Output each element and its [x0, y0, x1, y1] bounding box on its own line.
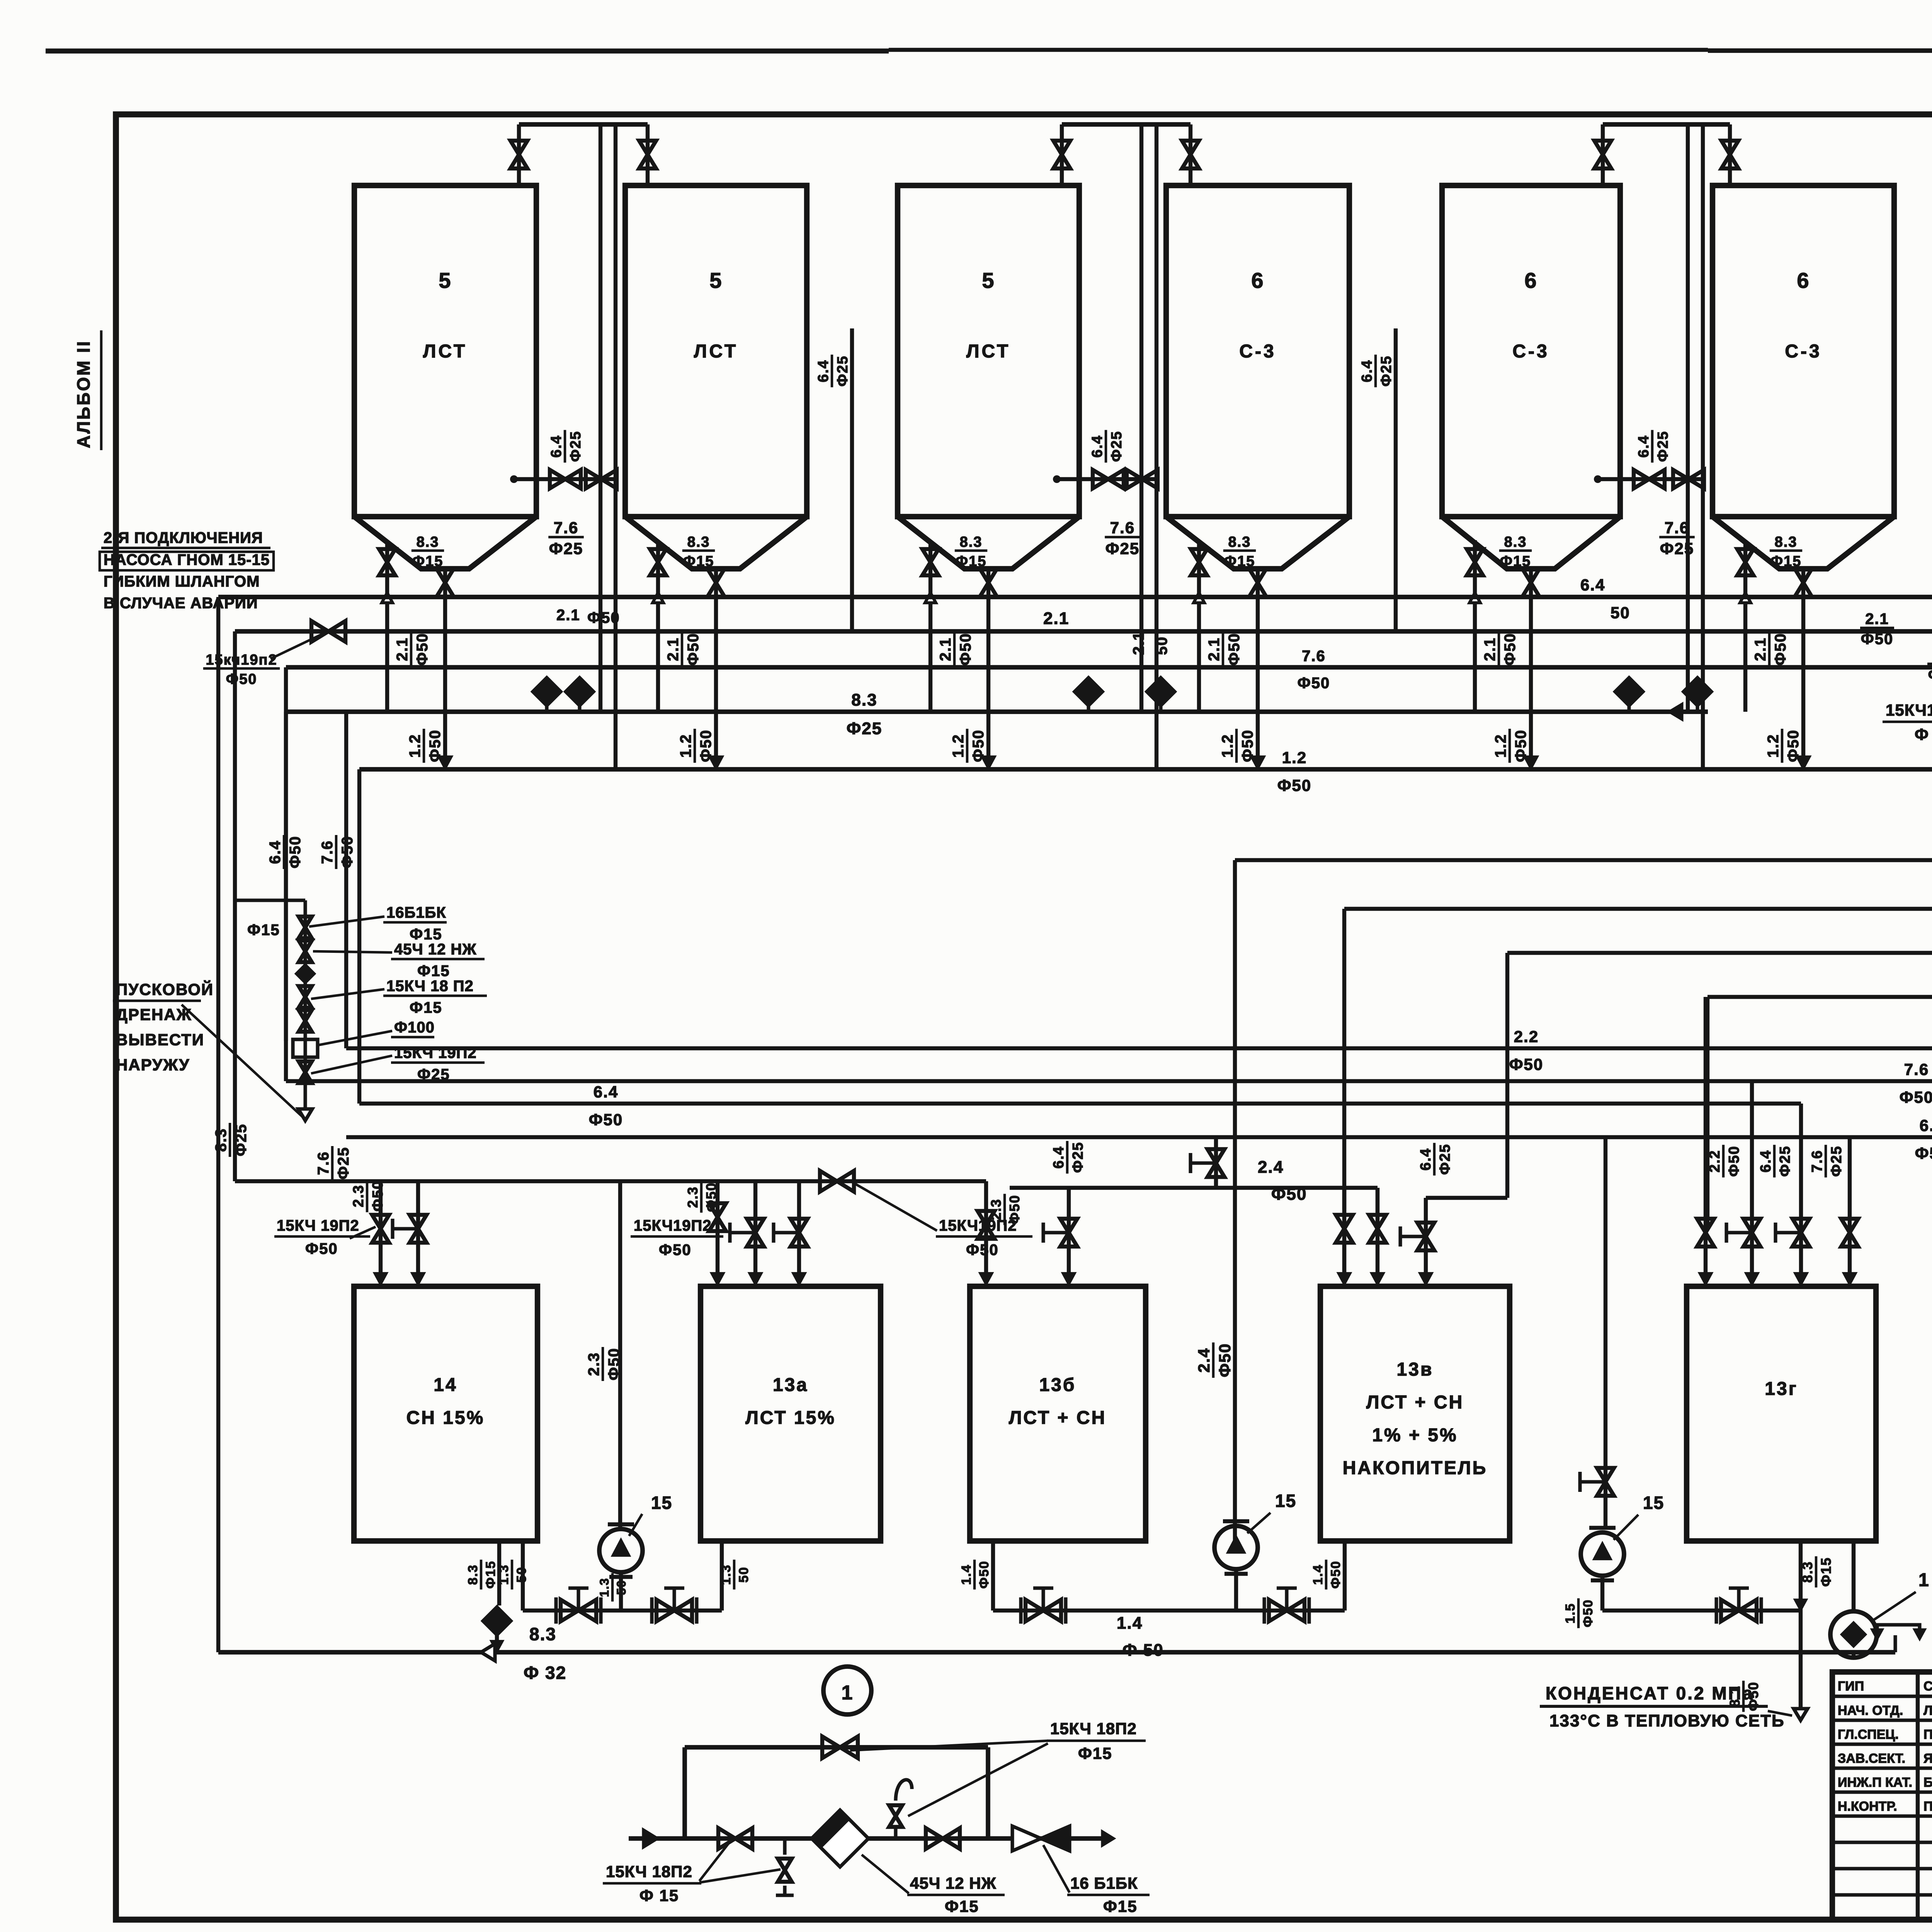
svg-text:Ф15: Ф15	[247, 922, 280, 939]
svg-text:2.3: 2.3	[685, 1186, 701, 1208]
svg-text:ЛСТ 15%: ЛСТ 15%	[745, 1408, 836, 1428]
svg-text:1.3: 1.3	[497, 1564, 511, 1585]
svg-text:Ф15: Ф15	[956, 553, 987, 570]
svg-text:7.6: 7.6	[1110, 519, 1135, 537]
svg-text:Ф25: Ф25	[1660, 539, 1694, 558]
svg-text:ПУСКОВОЙ: ПУСКОВОЙ	[116, 980, 214, 998]
svg-text:Ф25: Ф25	[1828, 1146, 1845, 1177]
svg-text:НАРУЖУ: НАРУЖУ	[116, 1056, 190, 1074]
svg-text:1.3: 1.3	[597, 1578, 611, 1597]
svg-text:50: 50	[1153, 636, 1170, 655]
svg-text:5: 5	[709, 268, 722, 293]
svg-text:2.1: 2.1	[937, 637, 954, 661]
svg-text:Ф50: Ф50	[1861, 631, 1894, 648]
svg-text:Ф50: Ф50	[1277, 776, 1312, 794]
svg-text:Ф50: Ф50	[977, 1561, 992, 1589]
svg-text:Ф50: Ф50	[1007, 1195, 1022, 1225]
svg-text:Ф 50: Ф 50	[1915, 725, 1932, 743]
svg-text:ИНЖ.П КАТ.: ИНЖ.П КАТ.	[1838, 1775, 1912, 1790]
svg-text:6: 6	[1524, 268, 1537, 293]
svg-text:Ф15: Ф15	[1078, 1744, 1112, 1762]
svg-text:7.6: 7.6	[1904, 1060, 1929, 1078]
svg-text:6.4: 6.4	[1920, 1116, 1932, 1134]
svg-text:ЯКОВИЧ: ЯКОВИЧ	[1923, 1751, 1932, 1766]
svg-text:6: 6	[1251, 268, 1264, 293]
svg-text:АЛЬБОМ II: АЛЬБОМ II	[73, 340, 94, 448]
svg-text:6.4: 6.4	[267, 840, 284, 864]
svg-text:Ф25: Ф25	[835, 355, 851, 387]
svg-text:Ф15: Ф15	[1224, 553, 1255, 570]
svg-text:Ф50: Ф50	[1239, 730, 1256, 762]
svg-text:1% + 5%: 1% + 5%	[1372, 1425, 1458, 1446]
svg-text:8.3: 8.3	[960, 534, 983, 550]
svg-text:16Б1БК: 16Б1БК	[386, 904, 446, 921]
svg-text:13б: 13б	[1039, 1375, 1076, 1395]
svg-text:Ф15: Ф15	[1818, 1557, 1834, 1587]
svg-text:8.3: 8.3	[1799, 1561, 1815, 1583]
svg-text:Ф 15: Ф 15	[639, 1886, 679, 1905]
svg-text:Ф50: Ф50	[1226, 633, 1243, 666]
svg-text:СОЛОВЬЕВ: СОЛОВЬЕВ	[1923, 1679, 1932, 1694]
svg-text:ВЫВЕСТИ: ВЫВЕСТИ	[116, 1031, 204, 1049]
svg-text:Ф50: Ф50	[697, 730, 714, 762]
svg-text:2.1: 2.1	[1206, 637, 1223, 661]
svg-text:6.4: 6.4	[815, 360, 832, 383]
svg-text:7.6: 7.6	[554, 519, 578, 537]
svg-text:2.2: 2.2	[1707, 1150, 1723, 1173]
svg-text:13а: 13а	[773, 1375, 808, 1395]
svg-text:Ф15: Ф15	[1770, 553, 1802, 570]
svg-text:2.4: 2.4	[1195, 1348, 1213, 1372]
svg-text:Ф50: Ф50	[339, 836, 356, 869]
svg-text:1.4: 1.4	[1117, 1614, 1143, 1633]
svg-text:8.3: 8.3	[1504, 534, 1527, 550]
svg-text:ПЕТРОВА: ПЕТРОВА	[1923, 1799, 1932, 1814]
svg-text:Ф50: Ф50	[370, 1180, 386, 1212]
svg-text:15КЧ 18П2: 15КЧ 18П2	[1050, 1719, 1137, 1738]
svg-text:Ф25: Ф25	[847, 719, 883, 738]
svg-text:50: 50	[1611, 604, 1630, 622]
svg-text:2.1: 2.1	[556, 607, 580, 624]
svg-text:8.3: 8.3	[466, 1564, 480, 1585]
svg-text:Ф15: Ф15	[945, 1897, 979, 1915]
svg-text:Ф100: Ф100	[394, 1019, 435, 1036]
svg-text:Ф15: Ф15	[483, 1561, 498, 1589]
svg-text:С-3: С-3	[1785, 341, 1821, 362]
svg-text:Ф25: Ф25	[1777, 1146, 1793, 1177]
svg-text:ГИБКИМ ШЛАНГОМ: ГИБКИМ ШЛАНГОМ	[104, 573, 260, 590]
svg-text:2.1: 2.1	[1752, 637, 1769, 661]
svg-text:ЛСТ: ЛСТ	[966, 341, 1010, 362]
svg-text:15: 15	[651, 1493, 672, 1513]
svg-text:2.3: 2.3	[988, 1199, 1004, 1220]
svg-text:Ф50: Ф50	[305, 1240, 338, 1257]
svg-text:Ф50: Ф50	[589, 1111, 623, 1129]
svg-text:Ф50: Ф50	[966, 1242, 999, 1259]
svg-text:ЛСТ: ЛСТ	[423, 341, 467, 362]
svg-text:2.1: 2.1	[665, 637, 682, 661]
svg-text:15: 15	[1643, 1493, 1664, 1513]
svg-text:45Ч 12 НЖ: 45Ч 12 НЖ	[394, 941, 476, 958]
svg-text:133°С В ТЕПЛОВУЮ СЕТЬ: 133°С В ТЕПЛОВУЮ СЕТЬ	[1549, 1711, 1785, 1730]
svg-text:Ф25: Ф25	[233, 1124, 250, 1156]
svg-text:Ф50: Ф50	[226, 671, 257, 687]
svg-text:Ф50: Ф50	[1915, 1144, 1932, 1162]
svg-text:14: 14	[434, 1375, 457, 1395]
svg-text:ЛАВРЕНТЬЕВ: ЛАВРЕНТЬЕВ	[1923, 1703, 1932, 1718]
svg-text:6.4: 6.4	[1636, 435, 1652, 458]
svg-text:2.3: 2.3	[585, 1352, 602, 1376]
svg-text:6.4: 6.4	[1418, 1148, 1434, 1171]
svg-text:1.2: 1.2	[1765, 734, 1782, 758]
svg-text:1.5: 1.5	[1563, 1603, 1578, 1623]
svg-text:1.2: 1.2	[1219, 734, 1236, 758]
svg-text:6.4: 6.4	[594, 1083, 618, 1101]
svg-text:Ф50: Ф50	[1928, 667, 1932, 684]
svg-text:2.1: 2.1	[1865, 611, 1889, 628]
svg-text:Ф25: Ф25	[1378, 355, 1395, 387]
svg-text:ЛСТ + СН: ЛСТ + СН	[1366, 1392, 1464, 1413]
svg-text:15: 15	[1275, 1491, 1296, 1511]
svg-text:Ф50: Ф50	[703, 1182, 719, 1212]
svg-text:6.4: 6.4	[1359, 360, 1375, 383]
svg-text:Ф50: Ф50	[1581, 1599, 1595, 1628]
svg-text:6.4: 6.4	[1051, 1146, 1067, 1169]
svg-text:50: 50	[736, 1566, 751, 1583]
svg-text:15КЧ19П2: 15КЧ19П2	[1886, 701, 1932, 719]
svg-text:Ф50: Ф50	[970, 730, 987, 762]
svg-text:ЛСТ: ЛСТ	[694, 341, 738, 362]
svg-text:2.3: 2.3	[350, 1185, 367, 1207]
svg-text:С-3: С-3	[1239, 341, 1276, 362]
svg-text:Ф15: Ф15	[412, 553, 444, 570]
svg-text:Ф15: Ф15	[417, 963, 450, 980]
svg-text:2.1: 2.1	[394, 637, 411, 661]
svg-text:Ф50: Ф50	[1509, 1055, 1544, 1073]
svg-text:Ф25: Ф25	[549, 539, 583, 558]
svg-text:8.3: 8.3	[417, 534, 439, 550]
svg-text:ДРЕНАЖ: ДРЕНАЖ	[116, 1005, 192, 1024]
svg-text:ПЕТРОВА: ПЕТРОВА	[1923, 1727, 1932, 1742]
svg-text:5: 5	[982, 268, 995, 293]
svg-text:5: 5	[439, 268, 451, 293]
svg-text:6: 6	[1797, 268, 1810, 293]
svg-text:Ф50: Ф50	[659, 1242, 692, 1259]
svg-text:ГЛ.СПЕЦ.: ГЛ.СПЕЦ.	[1838, 1727, 1899, 1742]
svg-text:Ф15: Ф15	[683, 553, 714, 570]
svg-text:Ф25: Ф25	[1437, 1144, 1453, 1175]
svg-text:Н.КОНТР.: Н.КОНТР.	[1838, 1799, 1897, 1814]
svg-text:Ф50: Ф50	[1502, 633, 1519, 666]
svg-text:50: 50	[514, 1566, 529, 1583]
svg-text:Ф15: Ф15	[1500, 553, 1531, 570]
svg-text:Ф50: Ф50	[957, 633, 974, 666]
svg-text:Ф 32: Ф 32	[524, 1663, 566, 1683]
svg-text:16 Б1БК: 16 Б1БК	[1070, 1874, 1138, 1892]
svg-text:6.4: 6.4	[548, 435, 565, 458]
svg-text:КОНДЕНСАТ 0.2 МПа: КОНДЕНСАТ 0.2 МПа	[1546, 1683, 1754, 1703]
svg-text:Ф50: Ф50	[414, 633, 431, 666]
svg-text:15кч19п2: 15кч19п2	[206, 652, 277, 668]
svg-text:1.2: 1.2	[1492, 734, 1509, 758]
svg-text:Ф25: Ф25	[1109, 431, 1125, 462]
svg-text:Ф25: Ф25	[1655, 431, 1671, 462]
svg-text:50: 50	[614, 1580, 628, 1595]
svg-text:7.6: 7.6	[319, 840, 336, 864]
svg-text:1: 1	[842, 1682, 854, 1704]
svg-text:Ф50: Ф50	[685, 633, 702, 666]
svg-text:Ф50: Ф50	[1785, 730, 1802, 762]
svg-text:2-Я ПОДКЛЮЧЕНИЯ: 2-Я ПОДКЛЮЧЕНИЯ	[104, 529, 263, 546]
svg-text:8.3: 8.3	[529, 1624, 556, 1644]
svg-text:НАКОПИТЕЛЬ: НАКОПИТЕЛЬ	[1343, 1458, 1487, 1478]
svg-text:Ф50: Ф50	[1216, 1343, 1234, 1378]
svg-text:7.6: 7.6	[1302, 648, 1326, 665]
svg-text:8.3: 8.3	[687, 534, 710, 550]
svg-text:ЛСТ + СН: ЛСТ + СН	[1009, 1408, 1107, 1428]
svg-text:Ф50: Ф50	[1900, 1088, 1932, 1106]
svg-text:Ф50: Ф50	[287, 836, 304, 869]
svg-text:Ф50: Ф50	[1512, 730, 1529, 762]
svg-text:45Ч 12 НЖ: 45Ч 12 НЖ	[910, 1874, 997, 1892]
svg-text:15КЧ19П2: 15КЧ19П2	[634, 1217, 712, 1234]
svg-text:15КЧ 19П2: 15КЧ 19П2	[277, 1217, 359, 1234]
svg-text:2.1: 2.1	[1481, 637, 1498, 661]
svg-text:Ф50: Ф50	[587, 609, 620, 626]
svg-text:Ф25: Ф25	[335, 1147, 352, 1180]
svg-text:Ф50: Ф50	[1271, 1185, 1307, 1204]
svg-text:13г: 13г	[1765, 1379, 1798, 1399]
svg-text:1: 1	[1918, 1570, 1930, 1590]
svg-text:2.1: 2.1	[1043, 609, 1069, 628]
svg-text:6.4: 6.4	[1089, 435, 1105, 458]
svg-text:Ф50: Ф50	[605, 1348, 622, 1381]
svg-text:8.3: 8.3	[851, 690, 877, 709]
svg-text:2.2: 2.2	[1514, 1027, 1539, 1046]
svg-text:8.3: 8.3	[1775, 534, 1798, 550]
svg-text:2.4: 2.4	[1258, 1158, 1284, 1177]
svg-text:7.6: 7.6	[1809, 1150, 1825, 1173]
svg-text:С-3: С-3	[1512, 341, 1549, 362]
svg-text:1.2: 1.2	[677, 734, 694, 758]
svg-text:6.4: 6.4	[1580, 576, 1605, 594]
svg-text:15КЧ 18 П2: 15КЧ 18 П2	[386, 978, 474, 995]
svg-text:Ф50: Ф50	[427, 730, 444, 762]
svg-text:Ф25: Ф25	[568, 431, 584, 462]
svg-text:1.2: 1.2	[950, 734, 967, 758]
svg-text:Ф15: Ф15	[410, 999, 442, 1016]
svg-text:13в: 13в	[1397, 1359, 1434, 1380]
svg-text:Ф15: Ф15	[1103, 1897, 1138, 1915]
svg-text:Ф15: Ф15	[410, 926, 442, 943]
svg-text:6.4: 6.4	[1758, 1150, 1774, 1173]
svg-text:8.3: 8.3	[1228, 534, 1251, 550]
svg-text:БОЙКОВА: БОЙКОВА	[1923, 1775, 1932, 1790]
svg-text:1.2: 1.2	[1282, 748, 1307, 767]
svg-text:Ф25: Ф25	[1105, 539, 1140, 558]
svg-text:НАСОСА ГНОМ 15-15: НАСОСА ГНОМ 15-15	[104, 551, 270, 568]
svg-text:Ф50: Ф50	[1772, 633, 1789, 666]
svg-text:В СЛУЧАЕ АВАРИИ: В СЛУЧАЕ АВАРИИ	[104, 595, 258, 612]
svg-text:1.3: 1.3	[719, 1564, 733, 1585]
svg-text:ЗАВ.СЕКТ.: ЗАВ.СЕКТ.	[1838, 1751, 1905, 1766]
svg-text:7.6: 7.6	[1665, 519, 1689, 537]
svg-text:Ф25: Ф25	[1070, 1142, 1086, 1173]
svg-text:Ф50: Ф50	[1298, 675, 1330, 692]
svg-text:1.4: 1.4	[1311, 1564, 1325, 1585]
svg-text:8.3: 8.3	[213, 1128, 230, 1152]
svg-text:1.2: 1.2	[406, 734, 423, 758]
svg-text:2.1: 2.1	[1130, 631, 1147, 655]
svg-text:СН 15%: СН 15%	[406, 1408, 485, 1428]
svg-text:Ф50: Ф50	[1328, 1561, 1343, 1589]
svg-text:7.6: 7.6	[315, 1151, 332, 1175]
svg-text:15КЧ 18П2: 15КЧ 18П2	[606, 1862, 692, 1881]
svg-text:ГИП: ГИП	[1838, 1679, 1864, 1694]
svg-text:НАЧ. ОТД.: НАЧ. ОТД.	[1838, 1703, 1903, 1718]
svg-text:1.4: 1.4	[959, 1564, 974, 1585]
svg-text:Ф50: Ф50	[1726, 1146, 1742, 1177]
